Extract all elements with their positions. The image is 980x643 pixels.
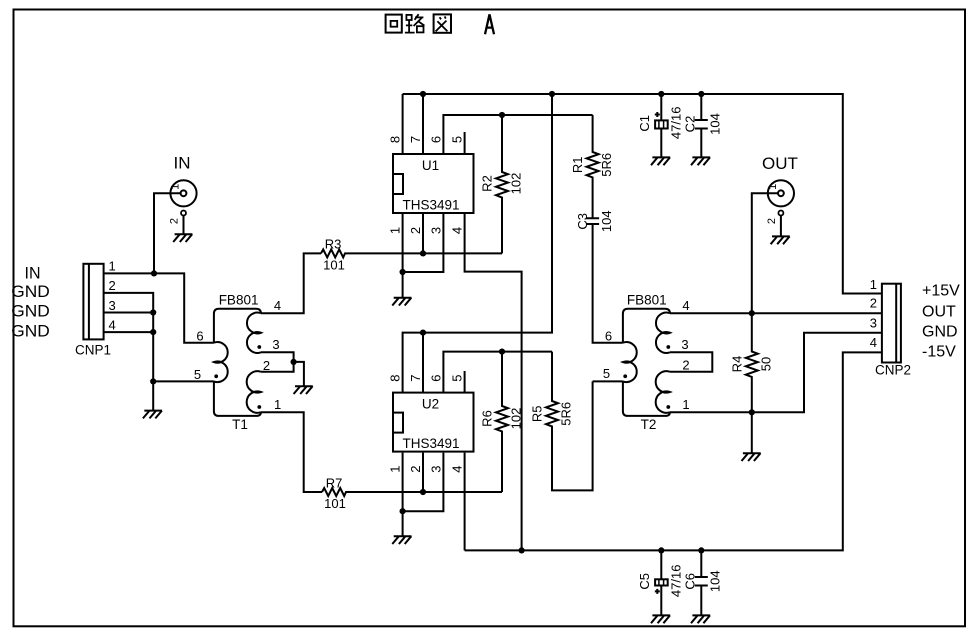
ground (BNC OUT shell)	[771, 236, 790, 244]
svg-text:104: 104	[708, 113, 723, 135]
svg-text:GND: GND	[922, 324, 958, 341]
svg-text:R2: R2	[480, 175, 495, 192]
node C5 rail junction	[658, 547, 664, 553]
svg-text:2: 2	[263, 358, 270, 373]
C5 polarity plus	[655, 589, 660, 594]
svg-text:U1: U1	[422, 158, 439, 173]
wire BNC IN shell stem	[183, 216, 185, 235]
node U1 pin7 rail junction	[420, 91, 426, 97]
wire U1 pin4 to -rail	[465, 213, 522, 550]
svg-text:IN: IN	[25, 264, 41, 283]
wire U1 pin6 output line	[443, 115, 592, 154]
svg-text:C2: C2	[683, 116, 698, 133]
ground (C1)	[651, 157, 670, 165]
resistor R2	[496, 115, 508, 253]
title 回路図 A	[386, 14, 494, 34]
wire U2 pin1-pin3 tie	[403, 453, 444, 512]
svg-text:1: 1	[274, 397, 281, 412]
node T2 pin4/R4/OUT junction	[749, 310, 755, 316]
wire T2 pin1 to R4 node and CNP2 pin3	[670, 333, 882, 412]
wire BNC IN center to down lead	[154, 193, 181, 273]
svg-text:101: 101	[323, 258, 345, 273]
U1 pin number labels top 8 7 6 5	[388, 136, 465, 143]
svg-text:3: 3	[272, 337, 279, 352]
wire T1 pin1 down to R7	[261, 412, 322, 492]
wire T1 pin4 up to R3	[261, 253, 321, 313]
svg-text:6: 6	[196, 328, 203, 343]
svg-text:CNP1: CNP1	[75, 343, 111, 358]
wire CNP1 pin4	[103, 331, 153, 333]
wire ground bus to T1 pin5	[153, 380, 214, 382]
svg-text:3: 3	[681, 337, 688, 352]
svg-text:104: 104	[599, 210, 614, 232]
op-amp U2 THS3491 body	[393, 393, 474, 452]
T1 pin number labels	[194, 298, 281, 412]
node BNC-CNP1 junction	[151, 270, 157, 276]
svg-text:R5: R5	[530, 405, 545, 422]
node C6 rail junction	[698, 547, 704, 553]
resistor R4	[746, 313, 758, 412]
resistor R1	[587, 115, 599, 218]
ground (BNC IN shell)	[173, 234, 192, 242]
U2 pin number labels bottom 1 2 3 4	[388, 465, 465, 472]
svg-text:R3: R3	[325, 237, 342, 252]
CNP1 pin number labels	[109, 259, 116, 333]
svg-text:5: 5	[603, 366, 610, 381]
svg-text:THS3491: THS3491	[402, 436, 459, 451]
svg-text:6: 6	[428, 136, 443, 143]
svg-text:102: 102	[509, 408, 524, 430]
svg-text:1: 1	[388, 227, 403, 234]
capacitor C1 electrolytic	[655, 94, 668, 157]
wire -15V bottom rail	[465, 352, 882, 550]
svg-text:FB801: FB801	[627, 292, 667, 307]
node C2 rail junction	[698, 91, 704, 97]
node R6 top junction	[499, 349, 505, 355]
svg-text:8: 8	[388, 136, 403, 143]
svg-text:R1: R1	[570, 156, 585, 173]
svg-text:4: 4	[870, 335, 877, 350]
svg-text:2: 2	[766, 218, 778, 224]
svg-text:3: 3	[870, 315, 877, 330]
svg-text:C1: C1	[637, 115, 652, 132]
capacitor C6	[695, 550, 708, 615]
svg-text:R6: R6	[480, 410, 495, 427]
svg-text:1: 1	[109, 259, 116, 274]
node U1 pin4 line to -rail junction	[519, 547, 525, 553]
wire U2 pin4 to -rail	[464, 453, 466, 551]
resistor R3	[321, 249, 502, 257]
ground (CNP1 shield)	[143, 411, 162, 419]
svg-text:+15V: +15V	[922, 283, 960, 300]
wire T2 pin3-pin2 tie	[670, 352, 712, 372]
svg-text:6: 6	[605, 328, 612, 343]
op-amp U1 THS3491 body	[393, 154, 474, 213]
svg-text:2: 2	[408, 227, 423, 234]
left net labels IN/GND/GND/GND	[11, 264, 50, 341]
transformer T1 FB801	[214, 309, 261, 416]
svg-text:C5: C5	[637, 573, 652, 590]
svg-text:2: 2	[870, 295, 877, 310]
svg-text:1: 1	[388, 465, 403, 472]
wire U1 pin1-pin3 tie	[403, 213, 444, 272]
wire BNC OUT center lead	[752, 193, 778, 313]
svg-text:2: 2	[682, 358, 689, 373]
resistor R5	[546, 352, 593, 491]
svg-text:THS3491: THS3491	[402, 198, 459, 213]
svg-text:47/16: 47/16	[669, 565, 684, 598]
node U2 pin7 junction	[420, 330, 426, 336]
svg-text:101: 101	[324, 496, 346, 511]
wire BNC OUT shell stem	[780, 216, 782, 237]
wire U1 gnd stem	[402, 272, 404, 298]
resistor R7	[322, 488, 502, 496]
ground (C2)	[691, 157, 710, 165]
node gnd/T1 pin5 junction	[150, 378, 156, 384]
right net labels +15V/OUT/GND/-15V	[922, 283, 960, 361]
capacitor C3	[586, 218, 623, 342]
connector CNP2 body	[882, 284, 901, 363]
svg-text:-15V: -15V	[922, 343, 956, 360]
svg-text:2: 2	[169, 218, 181, 224]
U1 pin number labels bottom 1 2 3 4	[388, 227, 465, 234]
svg-text:3: 3	[428, 227, 443, 234]
ground (C6)	[691, 615, 710, 623]
svg-text:R7: R7	[326, 475, 343, 490]
svg-text:IN: IN	[174, 154, 191, 173]
svg-text:T2: T2	[641, 417, 657, 432]
wire T1 pin3-pin2 tie	[261, 352, 294, 372]
node C1 rail junction	[658, 91, 664, 97]
wire U1 pin2 to R3 line	[422, 213, 424, 253]
node T2 pin1/R4 junction	[749, 409, 755, 415]
svg-text:8: 8	[388, 374, 403, 381]
svg-text:5R6: 5R6	[599, 153, 614, 177]
svg-text:C3: C3	[575, 213, 590, 230]
node rail branch to U2 supply	[549, 91, 555, 97]
capacitor C5 electrolytic	[655, 550, 668, 615]
svg-text:4: 4	[450, 465, 465, 472]
wire T2 pin4 to CNP2 pin2 (OUT)	[670, 312, 882, 314]
CNP2 pin number labels	[870, 277, 877, 350]
wire U1 pin5 stub	[464, 132, 466, 154]
svg-text:CNP2: CNP2	[875, 363, 911, 378]
svg-text:50: 50	[758, 357, 773, 371]
wire U2 pin7	[422, 333, 424, 393]
node R2 top junction	[499, 112, 505, 118]
svg-text:OUT: OUT	[762, 154, 798, 173]
svg-text:7: 7	[408, 374, 423, 381]
node U2 pin1 gnd junction	[400, 508, 406, 514]
BNC connector J-IN body	[170, 180, 196, 215]
svg-text:7: 7	[408, 136, 423, 143]
ground (T1 tap)	[294, 386, 313, 394]
svg-text:T1: T1	[232, 417, 248, 432]
svg-text:4: 4	[682, 298, 689, 313]
wire R4 to ground	[751, 412, 753, 453]
svg-text:102: 102	[509, 173, 524, 195]
svg-text:47/16: 47/16	[669, 107, 684, 140]
T2 pin number labels	[603, 298, 690, 412]
svg-text:1: 1	[170, 184, 182, 190]
wire U2 gnd stem	[402, 511, 404, 536]
node CNP1 pin4 junction	[150, 329, 156, 335]
node U1 pin2 junction	[420, 250, 426, 256]
BNC connector J-OUT body	[768, 180, 794, 215]
svg-text:GND: GND	[11, 282, 50, 301]
svg-text:104: 104	[708, 570, 723, 592]
ground (C5)	[651, 615, 670, 623]
svg-text:GND: GND	[11, 321, 50, 340]
svg-text:5: 5	[450, 374, 465, 381]
svg-text:R4: R4	[729, 356, 744, 373]
svg-text:1: 1	[767, 184, 779, 190]
wire U2 pin2 to R7 line	[422, 453, 424, 492]
U2 pin number labels top 8 7 6 5	[388, 374, 465, 381]
node U2 pin2 junction	[420, 489, 426, 495]
svg-text:3: 3	[428, 465, 443, 472]
svg-text:6: 6	[428, 374, 443, 381]
svg-text:5R6: 5R6	[559, 402, 574, 426]
svg-text:5: 5	[194, 367, 201, 382]
svg-text:C6: C6	[683, 573, 698, 590]
wire U2 pin6 line	[443, 352, 552, 393]
svg-text:U2: U2	[422, 397, 439, 412]
wire U2 pin5 stub	[464, 371, 466, 393]
capacitor C2	[695, 94, 708, 157]
svg-text:2: 2	[408, 465, 423, 472]
wire CNP1 pin3	[103, 312, 153, 314]
T1 phase dots	[214, 374, 218, 378]
wire U2 pins8-7 supply line	[403, 94, 552, 393]
wire U1 pin8 to +rail	[402, 94, 404, 154]
connector CNP1 body	[83, 264, 103, 340]
svg-text:1: 1	[682, 397, 689, 412]
svg-text:2: 2	[109, 278, 116, 293]
svg-text:5: 5	[450, 136, 465, 143]
svg-text:1: 1	[870, 277, 877, 292]
wire +15V top rail	[403, 94, 882, 294]
svg-text:4: 4	[109, 317, 116, 332]
ground (U2)	[392, 536, 411, 544]
ground (R4)	[742, 453, 761, 461]
ground (U1)	[392, 298, 411, 306]
wire CNP1 pin2 down bus	[103, 293, 153, 411]
svg-text:3: 3	[109, 298, 116, 313]
transformer T2 FB801	[623, 309, 670, 416]
svg-text:4: 4	[450, 227, 465, 234]
svg-text:OUT: OUT	[922, 304, 956, 321]
node CNP1 pin3 junction	[150, 309, 156, 315]
node T1 tap junction	[291, 359, 297, 365]
wire R5 to T2 pin5	[593, 380, 623, 382]
svg-text:FB801: FB801	[219, 292, 259, 307]
resistor R6	[496, 352, 508, 492]
svg-text:4: 4	[274, 298, 281, 313]
wire T1 center tap to ground	[294, 362, 304, 386]
C1 polarity plus	[655, 112, 660, 117]
wire CNP1 pin1 to T1 pin6	[103, 273, 213, 342]
wire U1 pin7 to +rail	[422, 94, 424, 154]
node U1 pin1 gnd junction	[400, 269, 406, 275]
svg-text:GND: GND	[11, 302, 50, 321]
T2 phase dots	[623, 374, 627, 378]
